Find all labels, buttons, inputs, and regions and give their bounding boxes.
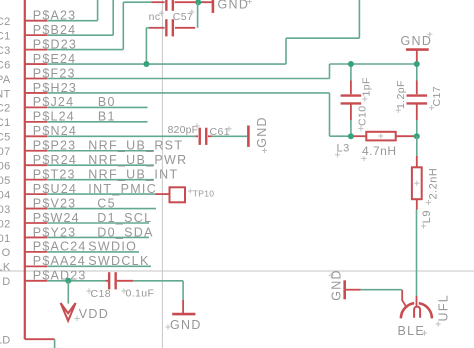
connector BLE shield dome arcs	[401, 303, 414, 318]
capacitor C61 plates	[199, 128, 201, 145]
pin P$V23 stub	[25, 208, 47, 210]
junction node L3 left	[348, 133, 354, 139]
svg-text:NRF_UB_RST: NRF_UB_RST	[88, 139, 183, 153]
power VDD arrow symbol	[61, 303, 76, 313]
wire net AD23 horizontal	[47, 280, 105, 282]
svg-text:LK: LK	[0, 262, 11, 274]
ground GND bottom bar	[172, 313, 195, 316]
capacitor C18 left lead	[105, 280, 108, 282]
wire net GND to UFL shield	[361, 289, 402, 291]
pin P$J24 stub	[25, 106, 47, 108]
svg-text:nc: nc	[149, 11, 161, 23]
svg-text:BLE: BLE	[398, 324, 426, 338]
junction node C10 top	[348, 61, 354, 67]
junction node L3 right	[414, 133, 420, 139]
wire net A23 riser	[97, 0, 99, 21]
wire net row P$V23	[47, 208, 156, 210]
wire net F23 horizontal	[47, 78, 329, 80]
svg-text:B1: B1	[98, 110, 116, 124]
connector BLE shield ground leg	[402, 290, 407, 308]
svg-text:0.1uF: 0.1uF	[126, 287, 155, 299]
pin P$R24 stub	[25, 164, 47, 166]
svg-text:B0: B0	[98, 95, 116, 109]
ground GND top-right stub	[416, 50, 418, 64]
svg-text:PA: PA	[0, 74, 11, 86]
pin P$E24 stub	[25, 63, 47, 65]
wire net row P$AC24	[47, 251, 139, 253]
connector BLE center pin lead	[416, 296, 418, 306]
svg-text:LD: LD	[0, 334, 11, 346]
svg-text:02: 02	[0, 218, 11, 230]
svg-text:UFL: UFL	[436, 294, 450, 322]
pin P$N24 stub	[25, 135, 47, 137]
ground GND (UFL) lead	[346, 289, 361, 291]
svg-text:GND: GND	[170, 318, 202, 332]
wire net H23 lower horizontal	[330, 135, 351, 137]
capacitor C57 left lead	[149, 27, 165, 29]
svg-text:O: O	[2, 247, 11, 259]
wire net E24 upper horizontal	[286, 37, 359, 39]
pin P$P23 stub	[25, 150, 47, 152]
capacitor C17 top lead	[416, 64, 418, 81]
wire net row P$L24	[47, 121, 147, 123]
svg-text:04: 04	[0, 189, 11, 201]
inductor L3 left lead	[351, 135, 366, 137]
svg-text:C1: C1	[0, 117, 11, 129]
pin P$Y23 stub	[25, 236, 47, 238]
capacitor C61 right lead	[208, 135, 212, 137]
wire net row P$T23	[47, 179, 154, 181]
svg-text:C57: C57	[173, 11, 193, 23]
ground GND (UFL) bar	[343, 280, 346, 299]
wire net E24 horizontal	[47, 63, 286, 65]
testpoint TP10 pad square	[170, 187, 186, 202]
capacitor C18 right lead	[117, 280, 134, 282]
inductor L3 right lead	[396, 135, 414, 137]
svg-text:D: D	[2, 276, 10, 288]
svg-text:NT: NT	[0, 88, 11, 100]
wire net H23 drop down	[329, 93, 331, 136]
capacitor C10 bottom lead	[350, 104, 352, 121]
svg-text:L9: L9	[421, 210, 433, 223]
pin P$B24 stub	[25, 34, 47, 36]
wire net B24 horizontal	[47, 34, 113, 36]
frame vertical border line	[161, 0, 163, 348]
pin P$D23 stub	[25, 49, 47, 51]
inductor L3 body	[366, 132, 395, 141]
wire net BLE_ANT vertical	[416, 210, 418, 297]
power VDD branch wire	[67, 281, 69, 304]
wire net from bottom pin going down	[54, 339, 56, 348]
svg-text:TP10: TP10	[193, 189, 215, 199]
capacitor C61 left lead	[195, 135, 198, 137]
pin P$W24 stub	[25, 222, 47, 224]
svg-text:01: 01	[0, 233, 11, 245]
pin P$T23 stub	[25, 179, 47, 181]
svg-text:1pF: 1pF	[361, 77, 373, 96]
wire C57 right riser to junction	[197, 2, 199, 28]
capacitor C56 left lead	[152, 1, 165, 3]
svg-text:C18: C18	[91, 288, 111, 300]
wire net row P$Y23	[47, 236, 149, 238]
wire net D23 riser	[122, 2, 124, 49]
pin P$AJ23 bottom stub (row 23)	[25, 338, 55, 340]
capacitor C57 right lead	[175, 27, 195, 29]
wire net N24 horizontal	[47, 135, 195, 137]
pin P$A23 stub	[25, 20, 47, 22]
wire net E24 riser to top edge	[358, 0, 360, 38]
svg-text:GND: GND	[255, 116, 269, 148]
wire net row P$P23	[47, 150, 154, 152]
wire net row P$R24	[47, 164, 154, 166]
wire C61 to GND	[212, 135, 248, 137]
wire net B24 riser	[112, 0, 114, 35]
svg-text:C17: C17	[431, 86, 443, 106]
capacitor C18 plates	[108, 272, 110, 289]
pin P$U24 stub	[25, 193, 47, 195]
svg-text:VDD: VDD	[79, 307, 109, 321]
svg-text:NRF_UB_INT: NRF_UB_INT	[88, 167, 178, 181]
junction node C17 top	[414, 61, 420, 67]
svg-text:820pF: 820pF	[168, 124, 199, 136]
svg-text:D0_SDA: D0_SDA	[97, 225, 153, 239]
wire net row P$AA24	[47, 265, 151, 267]
svg-text:C10: C10	[357, 106, 369, 126]
capacitor C57 plates	[165, 19, 167, 36]
wire net row P$J24	[47, 106, 147, 108]
wire net row P$W24	[47, 222, 149, 224]
svg-text:4.7nH: 4.7nH	[362, 144, 397, 158]
svg-text:GND: GND	[218, 0, 250, 12]
svg-text:1.2pF: 1.2pF	[395, 80, 407, 109]
capacitor C17 bottom lead	[416, 104, 418, 121]
IC U1 right edge (module body)	[24, 0, 26, 339]
svg-text:SWDIO: SWDIO	[88, 240, 137, 254]
ground GND top-right bar	[406, 48, 429, 51]
capacitor C56 right lead to GND	[175, 1, 213, 3]
capacitor C56 plates	[165, 0, 167, 11]
junction node C56/GND/C57	[195, 0, 201, 5]
junction node VDD branch	[65, 278, 71, 284]
inductor L9 body	[412, 167, 422, 199]
connector BLE center contact	[414, 307, 420, 318]
svg-text:C2: C2	[0, 103, 11, 115]
svg-text:C5: C5	[97, 196, 116, 210]
pin P$AC24 stub	[25, 251, 47, 253]
inductor L9 top lead	[416, 136, 418, 156]
svg-text:C1: C1	[0, 30, 11, 42]
svg-text:C2: C2	[0, 16, 11, 28]
svg-text:07: 07	[0, 146, 11, 158]
frame horizontal border line	[0, 270, 474, 272]
capacitor C10 plates	[341, 94, 362, 96]
capacitor C10 top lead	[350, 64, 352, 81]
svg-text:L3: L3	[337, 143, 350, 155]
wire net ANT upper horizontal	[330, 63, 417, 65]
wire net H23 horizontal	[47, 92, 329, 94]
svg-text:GND: GND	[401, 34, 433, 48]
wire net D23 horizontal	[47, 49, 123, 51]
svg-text:SWDCLK: SWDCLK	[88, 254, 149, 268]
ground GND bottom stub	[182, 300, 184, 313]
svg-text:06: 06	[0, 161, 11, 173]
wire net F23 riser up	[329, 64, 331, 79]
svg-text:2.2nH: 2.2nH	[428, 168, 440, 200]
wire C57 left riser down to E24 net	[146, 27, 149, 29]
ground GND top symbol bar	[212, 0, 215, 13]
inductor L9 bottom lead	[416, 199, 418, 209]
pin P$AA24 stub	[25, 265, 47, 267]
wire C18 to GND corner	[133, 280, 183, 282]
svg-text:C3: C3	[0, 45, 11, 57]
pin P$L24 stub	[25, 121, 47, 123]
svg-text:C5: C5	[0, 132, 11, 144]
capacitor C17 plates	[407, 94, 428, 96]
wire net E24 riser at x=286	[285, 38, 287, 64]
wire net U24 horizontal	[47, 193, 155, 195]
svg-text:03: 03	[0, 204, 11, 216]
pin P$F23 stub	[25, 78, 47, 80]
svg-text:D1_SCL: D1_SCL	[97, 211, 152, 225]
pin P$H23 stub	[25, 92, 47, 94]
wire net D23 top horizontal to C56	[123, 1, 151, 3]
svg-text:NRF_UB_PWR: NRF_UB_PWR	[88, 153, 187, 167]
pin P$AD23 stub	[25, 280, 47, 282]
ground GND (C61) bar	[247, 126, 250, 147]
junction node E24/C57	[143, 61, 149, 67]
svg-text:05: 05	[0, 175, 11, 187]
wire net A23 horizontal	[47, 20, 97, 22]
svg-text:C6: C6	[0, 59, 11, 71]
testpoint TP10 lead	[155, 193, 169, 195]
